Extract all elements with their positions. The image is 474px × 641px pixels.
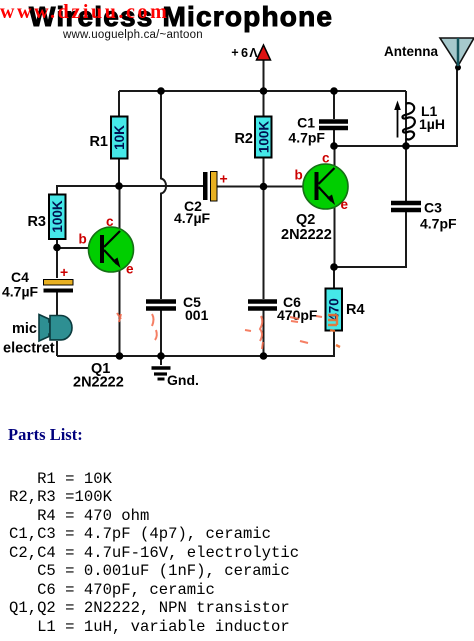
wire node D to R4 xyxy=(333,267,335,289)
wire Q1 base from R3 node xyxy=(57,247,101,249)
node B C2/R2/Q2b xyxy=(260,183,268,191)
svg-text:Antenna: Antenna xyxy=(384,44,438,59)
svg-text:electret: electret xyxy=(3,341,55,357)
svg-text:2N2222: 2N2222 xyxy=(281,227,332,243)
svg-text:e: e xyxy=(341,197,349,212)
svg-text:100K: 100K xyxy=(50,200,65,233)
wire C5 column with hop xyxy=(161,91,166,299)
svg-text:4.7µF: 4.7µF xyxy=(2,284,39,300)
red watermark www.dziuu.com xyxy=(0,1,169,24)
capacitor C6 xyxy=(248,294,318,323)
svg-text:e: e xyxy=(126,262,134,277)
svg-text:c: c xyxy=(322,151,330,166)
parts list title xyxy=(8,425,83,445)
wire ground rail left end xyxy=(56,341,58,356)
svg-text:9: 9 xyxy=(241,45,248,59)
wire top rail xyxy=(119,90,406,92)
wire node C to Q2 collector xyxy=(334,146,336,168)
node D Q2e/C3/R4 xyxy=(330,263,338,271)
svg-text:001: 001 xyxy=(185,307,209,323)
wire Q2 emitter to node D xyxy=(334,205,336,267)
capacitor C4 electrolytic xyxy=(2,264,73,300)
resistor R2 xyxy=(234,117,271,158)
watermark remnants xyxy=(117,313,322,349)
node L1/antenna row xyxy=(402,142,410,150)
wire R2 top xyxy=(263,91,265,117)
wire node A to C2 xyxy=(119,185,203,187)
transistor Q1 xyxy=(73,214,134,391)
node rail / Q1e xyxy=(116,352,124,360)
antenna xyxy=(384,38,474,66)
transistor Q2 xyxy=(281,151,349,244)
svg-text:+: + xyxy=(220,171,228,187)
svg-text:R3: R3 xyxy=(27,214,46,230)
wire node B down to C6 xyxy=(263,187,265,300)
wire C2 right to node B to Q2 base xyxy=(217,186,316,188)
svg-text:mic: mic xyxy=(12,321,37,337)
wire C3 top xyxy=(405,146,407,201)
node rail / gnd xyxy=(157,352,165,360)
svg-text:C3: C3 xyxy=(424,200,442,216)
wire Q1 emitter down xyxy=(119,266,121,356)
wire C5 to ground rail xyxy=(160,310,162,356)
wire R2 bottom to node B xyxy=(263,157,265,187)
svg-text:Gnd.: Gnd. xyxy=(167,372,199,388)
node top rail / C1 xyxy=(330,87,338,95)
ground xyxy=(152,368,199,388)
wire C6 to ground rail xyxy=(263,310,265,356)
svg-text:R4: R4 xyxy=(346,302,365,318)
capacitor C3 xyxy=(391,200,457,232)
svg-text:V: V xyxy=(249,45,258,59)
resistor R1 xyxy=(89,117,127,159)
svg-text:+: + xyxy=(60,264,68,280)
parts list xyxy=(9,470,299,637)
node top rail / +9V R2 xyxy=(260,87,268,95)
svg-text:4.7µF: 4.7µF xyxy=(174,210,211,226)
svg-text:c: c xyxy=(106,214,114,229)
wire R1 top xyxy=(118,91,120,117)
resistor R3 xyxy=(27,195,65,240)
wire R4 to ground rail xyxy=(57,330,334,356)
node C C1/Q2c xyxy=(330,142,338,150)
wire L1 column xyxy=(405,91,407,146)
wire node A to R3 xyxy=(57,186,119,195)
svg-text:470pF: 470pF xyxy=(277,307,318,323)
svg-text:470: 470 xyxy=(327,298,342,321)
title xyxy=(29,1,333,33)
resistor R4 xyxy=(326,289,365,331)
inductor L1 xyxy=(394,101,445,140)
svg-text:R2: R2 xyxy=(234,131,253,147)
svg-text:1µH: 1µH xyxy=(419,116,445,132)
wire node A to Q1 collector xyxy=(119,186,121,232)
+9V power symbol xyxy=(231,45,270,60)
node R3/C4/Q1b xyxy=(53,244,61,252)
wire R3 bottom xyxy=(56,239,58,278)
node A R1/R3/Q1c xyxy=(115,182,123,190)
svg-text:+: + xyxy=(231,45,238,59)
svg-text:100K: 100K xyxy=(256,121,271,154)
svg-text:4.7pF: 4.7pF xyxy=(288,130,325,146)
node antenna apex xyxy=(455,65,461,71)
junction node dots xyxy=(53,65,461,360)
wire C4 bottom to mic xyxy=(56,292,58,316)
capacitor C2 electrolytic xyxy=(174,171,228,227)
svg-text:2N2222: 2N2222 xyxy=(73,375,124,391)
wire C1 to node C xyxy=(333,130,335,146)
svg-text:10K: 10K xyxy=(112,125,127,150)
svg-text:C1: C1 xyxy=(297,115,315,131)
wire R1 bottom to node A xyxy=(118,158,120,187)
svg-text:4.7pF: 4.7pF xyxy=(420,216,457,232)
wire node C to antenna column xyxy=(334,69,457,146)
wire ground stub xyxy=(160,356,162,365)
capacitor C1 xyxy=(288,115,348,146)
wire C3 bottom to node D xyxy=(334,212,406,267)
node rail / C6 xyxy=(260,352,268,360)
svg-text:Q2: Q2 xyxy=(296,212,315,228)
svg-text:b: b xyxy=(295,168,303,183)
wire C1 column xyxy=(333,91,335,119)
svg-text:R1: R1 xyxy=(89,134,108,150)
node top rail / C5 xyxy=(157,87,165,95)
wire +9V drop xyxy=(263,59,265,91)
capacitor C5 xyxy=(146,294,209,323)
url subtitle xyxy=(63,29,203,41)
mic electret xyxy=(3,315,72,357)
svg-text:b: b xyxy=(79,232,87,247)
